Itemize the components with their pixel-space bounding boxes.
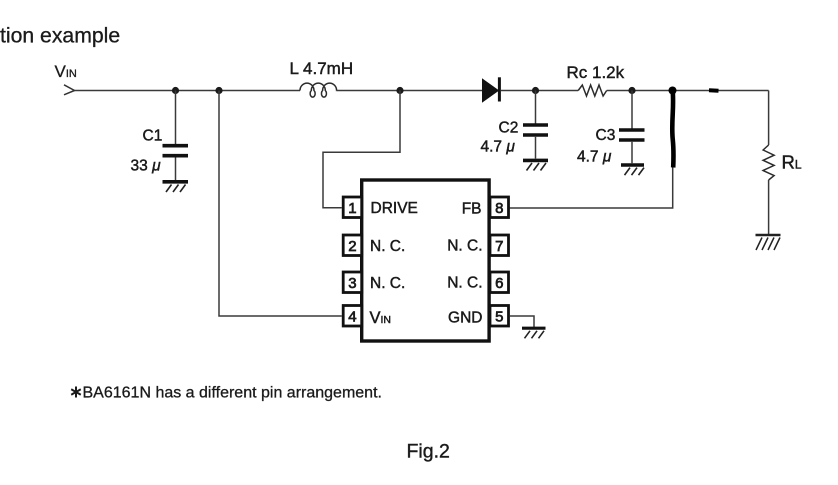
thick pen dash on output wire	[709, 88, 719, 93]
svg-text:DRIVE: DRIVE	[371, 200, 418, 217]
ground (C2)	[523, 160, 548, 170]
pin 5 box	[490, 306, 509, 327]
svg-text:N. C.: N. C.	[447, 275, 482, 292]
pin 3 box	[343, 272, 362, 293]
capacitor C2	[523, 125, 548, 159]
node: FB junction	[669, 87, 677, 95]
node: C3 junction	[628, 87, 635, 94]
svg-text:C2: C2	[499, 120, 519, 137]
svg-text:C3: C3	[596, 127, 616, 144]
node: input/C1 junction	[172, 87, 179, 94]
resistor Rc	[578, 85, 607, 96]
svg-text:C1: C1	[143, 128, 163, 145]
svg-text:3: 3	[348, 275, 356, 292]
svg-text:6: 6	[495, 275, 503, 292]
svg-text:VIN: VIN	[55, 62, 77, 81]
svg-text:BA6161N has a different pin ar: BA6161N has a different pin arrangement.	[83, 385, 382, 402]
wire: C2 branch	[535, 91, 537, 124]
wire: RL to ground	[768, 180, 770, 235]
svg-text:L 4.7mH: L 4.7mH	[290, 59, 354, 78]
wire: diode to Rc	[501, 90, 578, 92]
svg-text:4.7 μ: 4.7 μ	[577, 149, 612, 166]
svg-text:N. C.: N. C.	[447, 238, 482, 255]
pin 1 box	[343, 197, 362, 218]
wire: FB branch (pin 8 to output node)	[510, 91, 673, 208]
wire: inductor to diode	[337, 90, 483, 92]
svg-text:Rc 1.2k: Rc 1.2k	[567, 63, 625, 82]
node: VIN branch junction	[215, 87, 222, 94]
wire: output to RL	[768, 91, 770, 146]
thick pen mark over FB riser	[672, 88, 673, 168]
svg-text:5: 5	[495, 309, 503, 326]
svg-text:N. C.: N. C.	[370, 275, 405, 292]
pin 2 box	[343, 235, 362, 256]
svg-text:4: 4	[348, 309, 356, 326]
wire: C3 branch	[631, 91, 633, 129]
wire: pin 5 to ground	[510, 316, 535, 327]
svg-text:GND: GND	[448, 310, 482, 327]
wire: VIN branch down to pin 4	[219, 91, 342, 317]
svg-text:N. C.: N. C.	[370, 238, 405, 255]
node: drive branch junction	[396, 87, 403, 94]
svg-text:33 μ: 33 μ	[131, 158, 162, 175]
input terminal chevron	[64, 85, 75, 95]
svg-text:RL: RL	[782, 152, 802, 173]
pin 7 box	[490, 235, 509, 256]
capacitor C1	[163, 146, 189, 180]
wire: drive branch (node to pin 1)	[323, 91, 400, 208]
svg-text:7: 7	[495, 238, 503, 255]
wire: C1 branch	[175, 91, 177, 145]
svg-text:4.7 μ: 4.7 μ	[481, 139, 516, 156]
pin 8 box	[490, 197, 509, 218]
pin 6 box	[490, 272, 509, 293]
wire: Rc to output corner	[607, 90, 769, 92]
IC U1 body	[362, 180, 489, 341]
svg-text:tion example: tion example	[0, 24, 120, 47]
diode D1	[483, 77, 500, 102]
note asterisk	[71, 387, 81, 398]
svg-text:8: 8	[495, 200, 503, 217]
ground (RL)	[756, 235, 781, 250]
resistor RL	[763, 145, 774, 180]
svg-text:Fig.2: Fig.2	[407, 441, 450, 463]
inductor L1 (L 4.7mH)	[300, 83, 337, 97]
svg-text:2: 2	[348, 238, 356, 255]
svg-text:FB: FB	[462, 201, 482, 218]
ground (C3)	[621, 165, 644, 175]
node: C2 junction	[532, 87, 539, 94]
ground (pin 5 GND)	[522, 328, 546, 338]
ground (C1)	[163, 182, 189, 192]
svg-text:1: 1	[348, 200, 356, 217]
pin 4 box	[343, 306, 362, 327]
capacitor C3	[619, 130, 645, 163]
wire: main top rail (input to inductor)	[75, 90, 301, 92]
